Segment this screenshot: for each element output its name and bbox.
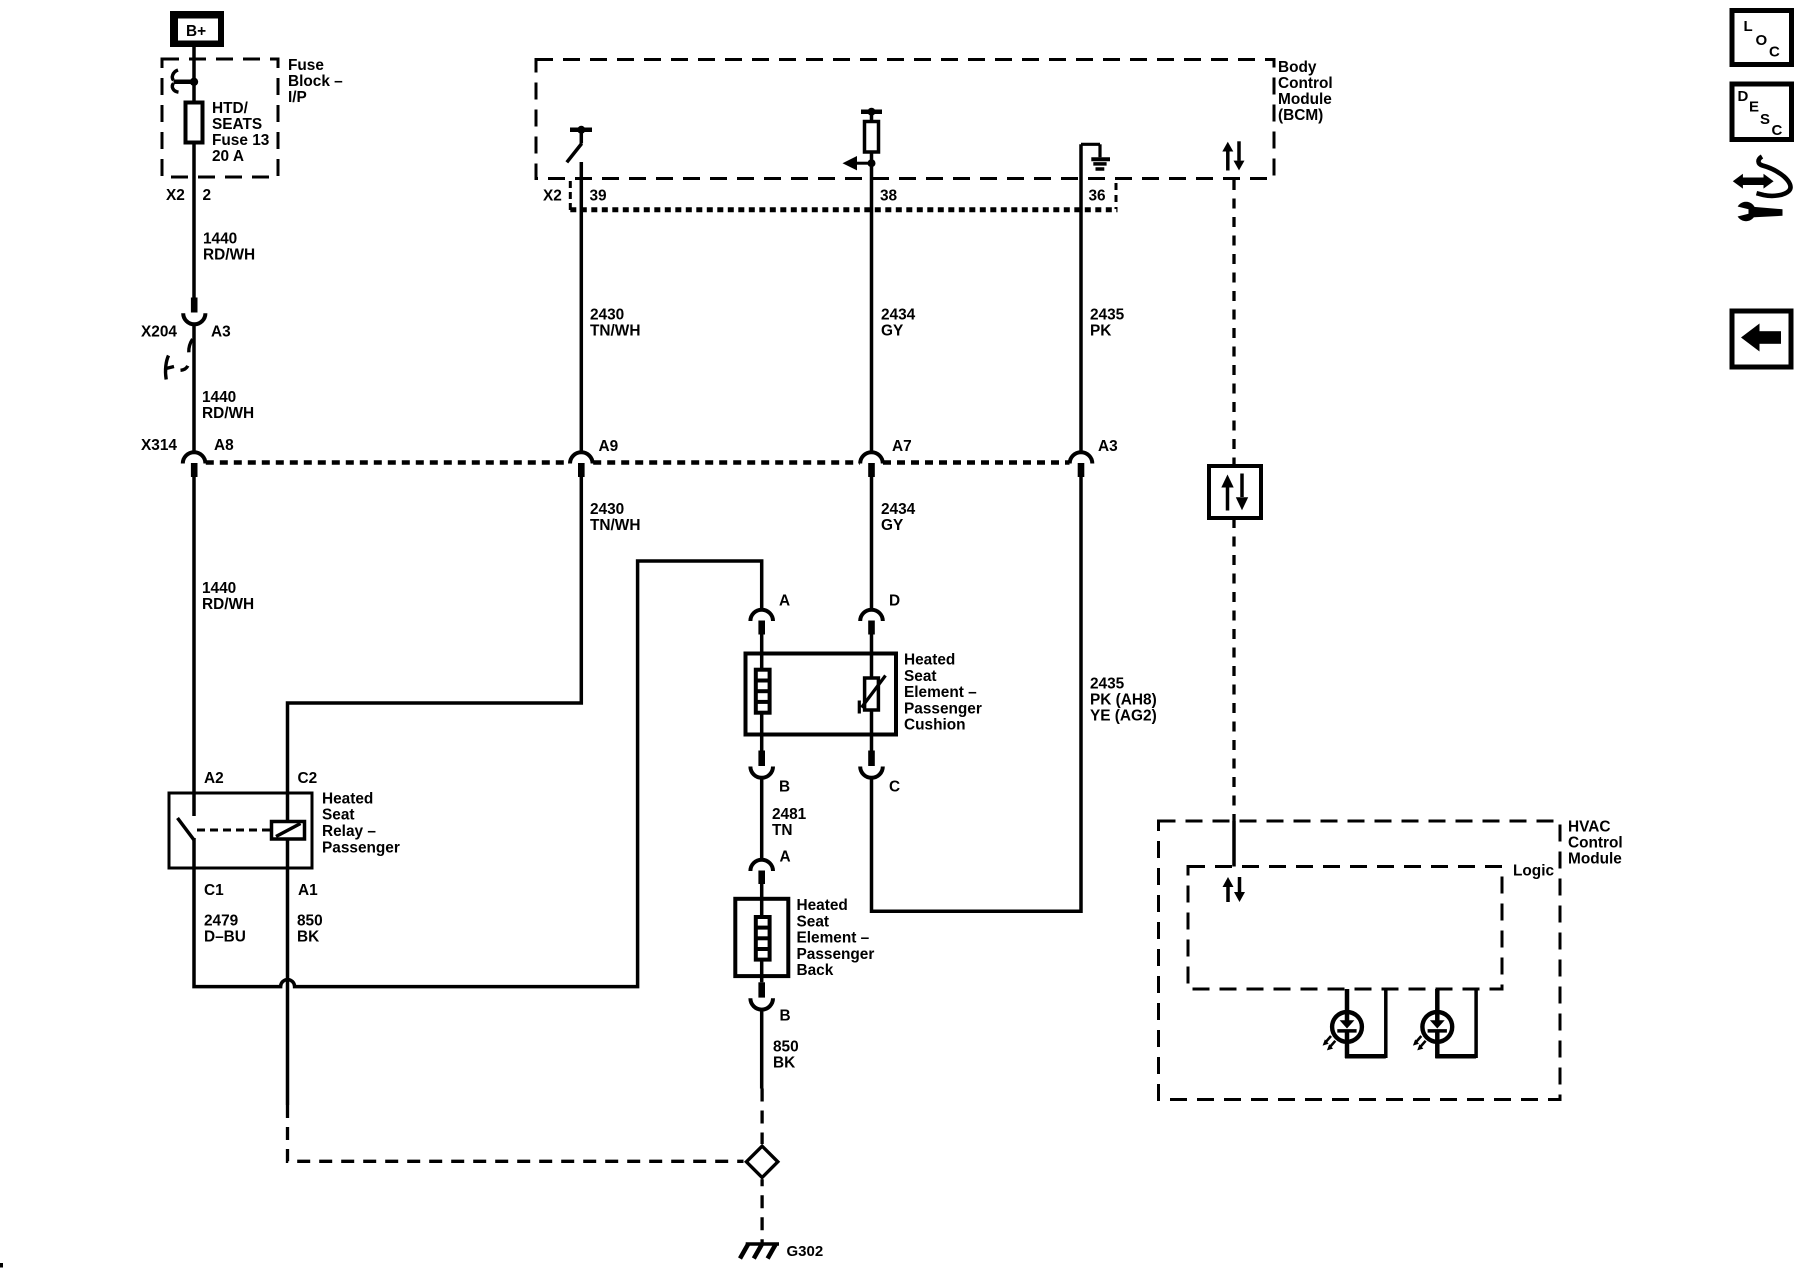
svg-text:Element –: Element – bbox=[797, 930, 870, 947]
cushion heating element symbol bbox=[756, 635, 770, 751]
svg-text:Passenger: Passenger bbox=[322, 839, 400, 856]
svg-text:L: L bbox=[1744, 18, 1753, 35]
serial data dashed wire BCM to HVAC bbox=[1232, 180, 1235, 466]
wire C1 2479 D-BU down, right with hop, up and over to cushion element pin A bbox=[194, 561, 762, 987]
connector B from back element bbox=[750, 982, 773, 1009]
logic serial arrows bbox=[1223, 877, 1246, 902]
svg-text:HVAC: HVAC bbox=[1568, 819, 1610, 836]
svg-text:TN/WH: TN/WH bbox=[590, 322, 640, 339]
wrench and arrows icon bbox=[1733, 157, 1791, 222]
svg-text:A3: A3 bbox=[1098, 438, 1118, 455]
BCM output arrow at pin 38 bbox=[843, 156, 876, 170]
svg-text:Seat: Seat bbox=[797, 913, 830, 930]
serial data dashed wire to HVAC bbox=[1232, 518, 1235, 821]
svg-text:D–BU: D–BU bbox=[204, 929, 246, 946]
svg-text:1440: 1440 bbox=[203, 231, 237, 248]
svg-text:Module: Module bbox=[1278, 91, 1332, 108]
stray mark bottom left bbox=[0, 1263, 3, 1268]
heated seat element passenger cushion box bbox=[746, 654, 897, 735]
svg-text:X314: X314 bbox=[141, 437, 177, 454]
battery feed B+ symbol bbox=[170, 11, 224, 47]
svg-text:Passenger: Passenger bbox=[797, 946, 875, 963]
connector A7 bbox=[860, 452, 883, 477]
heated seat element passenger back box bbox=[735, 899, 788, 976]
in-line connector X204 pin A3 bbox=[183, 298, 205, 325]
svg-text:TN: TN bbox=[772, 822, 793, 839]
svg-text:X2: X2 bbox=[543, 188, 562, 205]
svg-text:B: B bbox=[779, 779, 790, 796]
DESC icon box bbox=[1732, 84, 1792, 140]
svg-text:A: A bbox=[779, 593, 790, 610]
in-line harness connector X314 dashed line bbox=[206, 460, 1070, 465]
connector X2 row under BCM bbox=[570, 181, 1117, 211]
wire 850 BK to splice bbox=[760, 1010, 764, 1089]
svg-text:RD/WH: RD/WH bbox=[202, 596, 254, 613]
svg-text:X204: X204 bbox=[141, 324, 177, 341]
connector lock marks below X204 bbox=[166, 339, 193, 380]
LOC icon box bbox=[1732, 11, 1792, 65]
svg-text:Heated: Heated bbox=[322, 790, 373, 807]
svg-text:Fuse 13: Fuse 13 bbox=[212, 132, 269, 149]
svg-text:B: B bbox=[780, 1008, 791, 1025]
svg-text:RD/WH: RD/WH bbox=[202, 405, 254, 422]
svg-text:Cushion: Cushion bbox=[904, 717, 966, 734]
BCM label bbox=[1278, 59, 1333, 124]
svg-text:D: D bbox=[889, 593, 900, 610]
svg-text:2479: 2479 bbox=[204, 913, 238, 930]
svg-text:2434: 2434 bbox=[881, 501, 916, 518]
svg-text:D: D bbox=[1738, 88, 1749, 105]
connector X314 pin A8 bbox=[183, 452, 206, 477]
wire B to A, 2481 TN bbox=[760, 778, 764, 860]
svg-text:Logic: Logic bbox=[1513, 863, 1554, 880]
svg-text:C1: C1 bbox=[204, 882, 224, 899]
svg-text:38: 38 bbox=[880, 188, 898, 205]
wire labels 2479 D-BU and 850 BK bbox=[204, 913, 323, 946]
dashed 850 BK to splice bbox=[288, 1105, 744, 1161]
connector A9 bbox=[570, 452, 593, 477]
svg-text:1440: 1440 bbox=[202, 389, 236, 406]
svg-text:O: O bbox=[1756, 32, 1768, 49]
svg-text:RD/WH: RD/WH bbox=[203, 247, 255, 264]
svg-text:Control: Control bbox=[1568, 835, 1623, 852]
svg-text:E: E bbox=[1749, 99, 1759, 116]
relay switch contact bbox=[178, 793, 195, 868]
svg-text:GY: GY bbox=[881, 517, 904, 534]
svg-text:2481: 2481 bbox=[772, 806, 807, 823]
svg-text:A1: A1 bbox=[298, 882, 318, 899]
fuse block I/P dashed box bbox=[162, 59, 278, 177]
svg-text:2: 2 bbox=[203, 187, 212, 204]
BCM internal switch at pin 39 bbox=[567, 126, 592, 163]
connector A to cushion element bbox=[750, 610, 773, 635]
connector B from cushion element bbox=[750, 751, 773, 778]
svg-text:1440: 1440 bbox=[202, 580, 236, 597]
dashed 850 BK down to splice diamond bbox=[760, 1089, 763, 1145]
svg-text:I/P: I/P bbox=[288, 89, 307, 106]
svg-text:Block –: Block – bbox=[288, 73, 343, 90]
svg-text:YE (AG2): YE (AG2) bbox=[1090, 708, 1157, 725]
svg-text:Heated: Heated bbox=[797, 897, 848, 914]
back heating element symbol bbox=[756, 884, 770, 982]
svg-text:Back: Back bbox=[797, 962, 834, 979]
wire fuse to X204, 1440 RD/WH bbox=[192, 145, 196, 299]
wire BCM pin 36, 2435 PK bbox=[1079, 144, 1083, 453]
indicator LED 1 bbox=[1323, 989, 1386, 1058]
svg-text:Fuse: Fuse bbox=[288, 57, 324, 74]
wire A1 850 BK down from relay bbox=[286, 868, 290, 1105]
svg-text:PK: PK bbox=[1090, 322, 1111, 339]
svg-text:Relay –: Relay – bbox=[322, 823, 376, 840]
svg-text:A: A bbox=[780, 849, 791, 866]
svg-text:A2: A2 bbox=[204, 770, 224, 787]
wire A7 to cushion element pin D, 2434 GY bbox=[870, 477, 874, 611]
svg-text:850: 850 bbox=[773, 1039, 799, 1056]
svg-text:X2: X2 bbox=[166, 187, 185, 204]
wire into logic box bbox=[1232, 821, 1236, 867]
svg-text:2430: 2430 bbox=[590, 306, 624, 323]
fuse HTD/SEATS Fuse 13 20A bbox=[186, 103, 203, 143]
svg-text:TN/WH: TN/WH bbox=[590, 517, 640, 534]
svg-text:(BCM): (BCM) bbox=[1278, 107, 1323, 124]
svg-text:A7: A7 bbox=[892, 438, 912, 455]
svg-text:Seat: Seat bbox=[904, 668, 937, 685]
svg-text:850: 850 bbox=[297, 913, 323, 930]
connector A3 bbox=[1070, 452, 1093, 477]
svg-text:C: C bbox=[889, 779, 900, 796]
BCM internal ground at pin 36 bbox=[1081, 144, 1110, 169]
BCM internal resistor at pin 38 bbox=[861, 108, 882, 152]
wire BCM pin 39, 2430 TN/WH bbox=[580, 162, 584, 453]
svg-text:BK: BK bbox=[297, 929, 319, 946]
heated seat relay - passenger box bbox=[169, 793, 312, 868]
relay coil bbox=[272, 793, 305, 868]
svg-text:Module: Module bbox=[1568, 851, 1622, 868]
svg-text:BK: BK bbox=[773, 1055, 795, 1072]
svg-text:C2: C2 bbox=[298, 770, 318, 787]
svg-text:Element –: Element – bbox=[904, 684, 977, 701]
fuse clip / node at fuse input bbox=[172, 70, 198, 92]
wire A3 down and left to cushion element pin C, 2435 PK (AH8) YE (AG2) bbox=[872, 477, 1082, 911]
logic dashed box bbox=[1188, 867, 1502, 990]
svg-text:20 A: 20 A bbox=[212, 148, 244, 165]
svg-text:2435: 2435 bbox=[1090, 306, 1125, 323]
svg-text:B+: B+ bbox=[186, 23, 206, 40]
svg-text:PK (AH8): PK (AH8) bbox=[1090, 692, 1157, 709]
svg-text:GY: GY bbox=[881, 322, 904, 339]
connector C from cushion element bbox=[860, 751, 883, 778]
BCM serial data arrows bbox=[1222, 141, 1244, 170]
svg-text:C: C bbox=[1772, 122, 1783, 139]
indicator LED 2 bbox=[1413, 989, 1476, 1058]
svg-text:S: S bbox=[1760, 111, 1770, 128]
svg-text:Control: Control bbox=[1278, 75, 1333, 92]
svg-text:2434: 2434 bbox=[881, 306, 916, 323]
wire BCM pin 38, 2434 GY bbox=[870, 152, 874, 453]
relay coil link dashed bbox=[197, 829, 271, 832]
connector D to cushion element bbox=[860, 610, 883, 635]
wire B+ to fuse block bbox=[192, 47, 196, 101]
svg-text:36: 36 bbox=[1089, 188, 1106, 205]
HVAC control module dashed box bbox=[1159, 821, 1561, 1100]
cushion thermistor symbol bbox=[859, 635, 885, 752]
svg-text:G302: G302 bbox=[787, 1243, 824, 1260]
svg-text:2435: 2435 bbox=[1090, 676, 1125, 693]
connector A to back element bbox=[750, 860, 773, 884]
back arrow icon box bbox=[1732, 311, 1791, 367]
wire A9 down, left, down to relay C2, 2430 TN/WH bbox=[288, 477, 582, 793]
svg-text:A3: A3 bbox=[211, 324, 231, 341]
svg-text:39: 39 bbox=[590, 188, 607, 205]
splice diamond bbox=[746, 1146, 777, 1177]
svg-text:Passenger: Passenger bbox=[904, 700, 982, 717]
fuse block label bbox=[288, 57, 343, 106]
svg-text:A8: A8 bbox=[214, 437, 234, 454]
svg-text:Seat: Seat bbox=[322, 807, 355, 824]
svg-text:Body: Body bbox=[1278, 59, 1317, 76]
body control module BCM dashed box bbox=[536, 60, 1274, 179]
wire X314 to relay A2, 1440 RD/WH bbox=[192, 477, 196, 793]
svg-text:A9: A9 bbox=[599, 438, 619, 455]
svg-text:SEATS: SEATS bbox=[212, 116, 262, 133]
wire X204 to X314, 1440 RD/WH bbox=[192, 324, 196, 453]
svg-text:Heated: Heated bbox=[904, 652, 955, 669]
svg-text:2430: 2430 bbox=[590, 501, 624, 518]
serial data link box bbox=[1209, 466, 1261, 518]
dashed wire splice to ground bbox=[760, 1179, 763, 1243]
svg-text:C: C bbox=[1769, 44, 1780, 61]
ground G302 bbox=[740, 1244, 779, 1259]
svg-text:HTD/: HTD/ bbox=[212, 100, 249, 117]
